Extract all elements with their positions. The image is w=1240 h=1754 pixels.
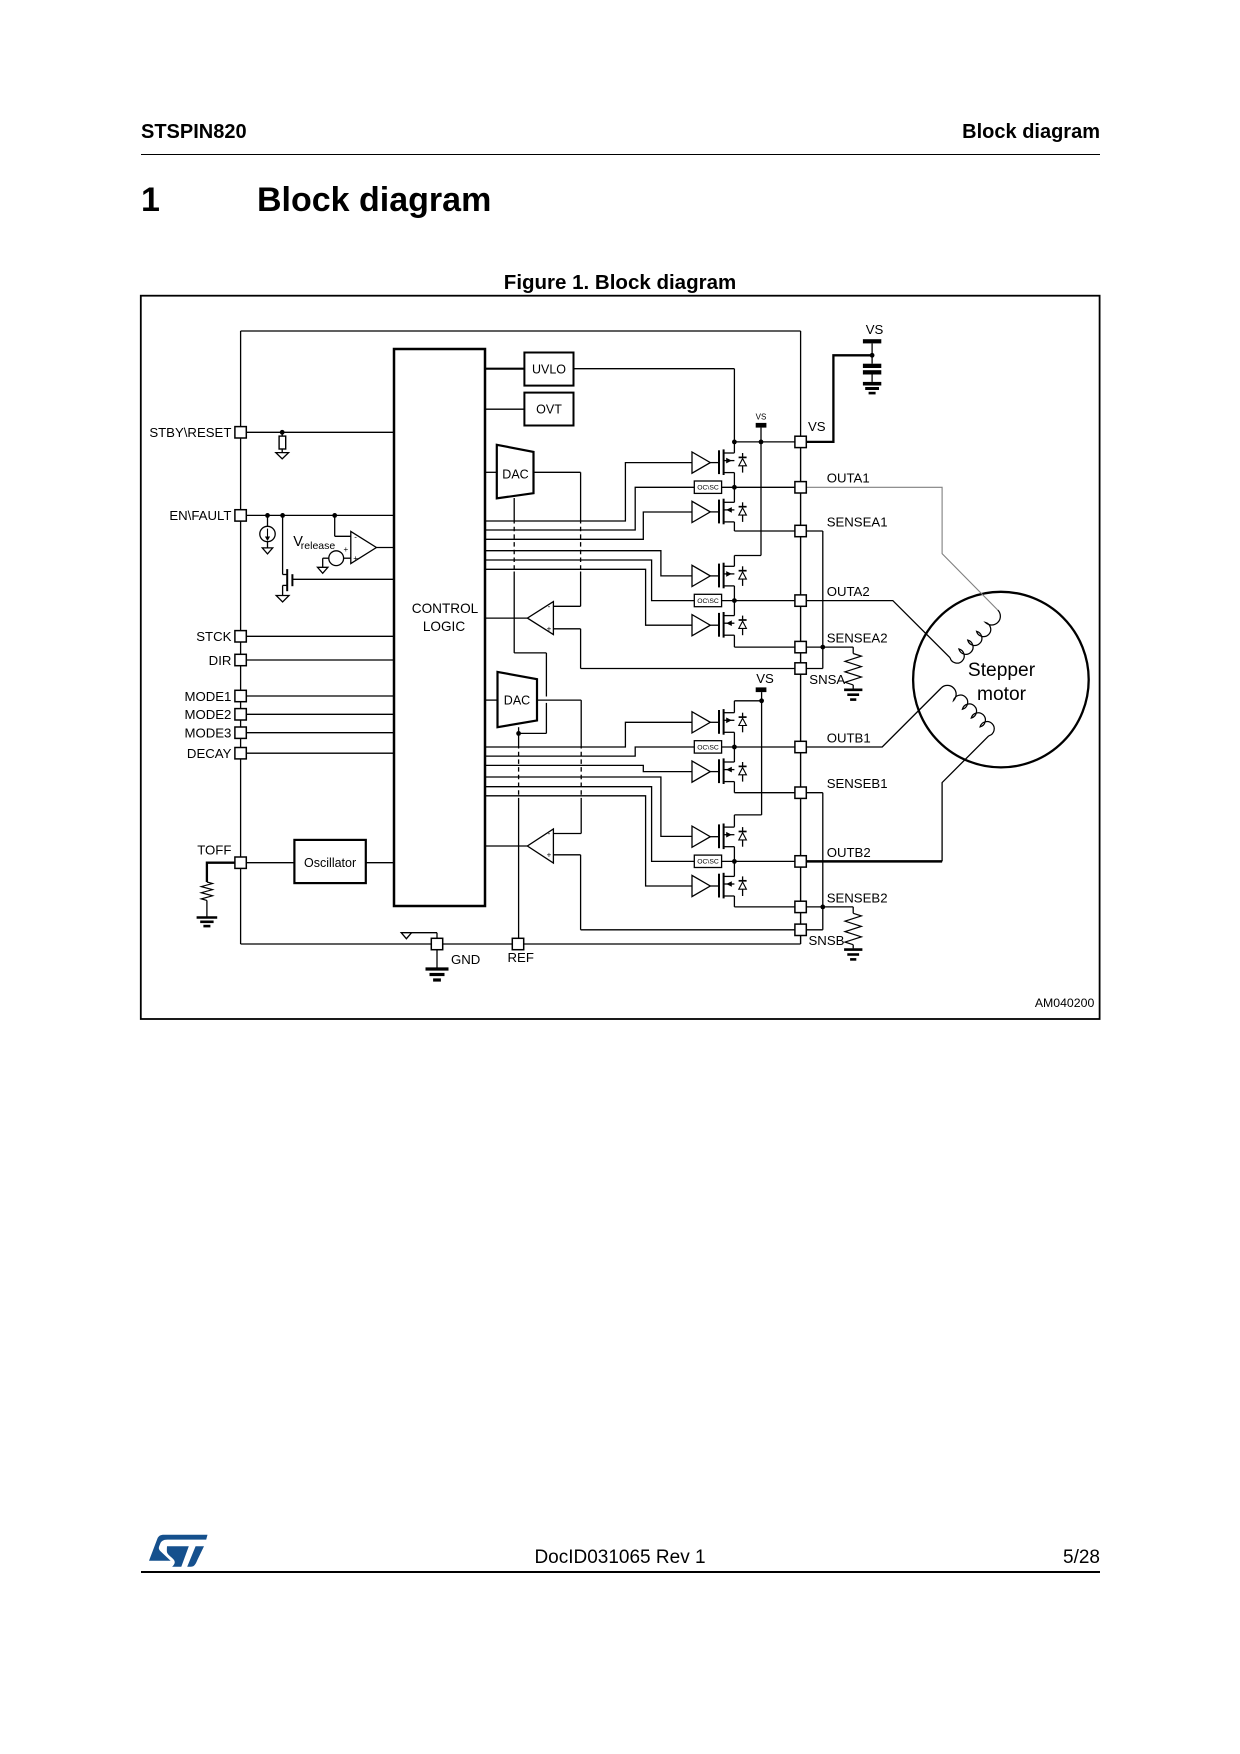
comparator A (current control, bridge A) [527, 602, 553, 635]
svg-text:SENSEA2: SENSEA2 [827, 631, 888, 646]
svg-text:CONTROL: CONTROL [412, 601, 479, 616]
wire VS to bridge B2 drains [761, 701, 763, 815]
OC/SC block OC/SC A1 [694, 481, 721, 493]
wire VS to bridge B1 drains [734, 700, 761, 702]
wire SENSEB1 to SNSB node [806, 792, 823, 794]
wire SENSEB2 to sense resistor [806, 906, 853, 908]
wire Q2L drain to OUTA2 node [733, 601, 735, 616]
wire TOFF to external resistor (thick) [207, 863, 235, 882]
pin SENSEB2 [795, 901, 806, 912]
wire OUTA2 to motor phase A [806, 601, 950, 658]
pin MODE3 [235, 727, 246, 738]
wire comparator A output to control logic [485, 617, 528, 619]
svg-text:OUTA1: OUTA1 [827, 471, 870, 486]
wire SENSEA2 to sense resistor [806, 646, 853, 648]
wire DAC B output to comparator B inverting input [537, 699, 581, 701]
body diode of Q2L [742, 616, 744, 620]
wire Q3L drain to OUTB1 node [733, 747, 735, 762]
node SNSB [820, 905, 825, 910]
wire Q3L source to SENSEB1 [733, 782, 735, 793]
wire REF net: DAC A bottom tap [513, 498, 515, 519]
wire outer loop: bottom GND bus [241, 943, 801, 945]
svg-text:STCK: STCK [196, 629, 231, 644]
wire VS rail (bridge A) [734, 441, 795, 443]
OC/SC block OC/SC B2 [694, 855, 721, 867]
wire MODE2 to control logic [246, 713, 394, 715]
wire DIR to control logic [246, 659, 394, 661]
pin OUTB1 [795, 741, 806, 752]
pin SENSEB1 [795, 787, 806, 798]
comparator U6 (EN release) [351, 531, 377, 563]
wire Q1L drain to OUTA1 node [733, 487, 735, 502]
wire driver DRV8 to gate [710, 885, 719, 887]
footer rule [141, 1571, 1100, 1573]
wire control logic to UVLO [485, 368, 525, 370]
svg-text:+: + [353, 554, 358, 563]
block OVT U3 [524, 393, 573, 426]
wire OUTA1 to motor phase A [806, 487, 998, 610]
gate driver DRV5 (high-side B1) [692, 712, 710, 733]
wire OUTB2 to motor phase B (thick) [806, 860, 942, 863]
pin EN\FAULT [235, 510, 246, 521]
pin DIR [235, 654, 246, 665]
body diode of Q4H [742, 827, 744, 831]
node SNSA [820, 645, 825, 650]
svg-text:release: release [301, 540, 336, 552]
pin MODE2 [235, 709, 246, 720]
svg-text:SNSB: SNSB [809, 933, 845, 948]
pin SENSEA1 [795, 525, 806, 536]
wire driver DRV2 to gate [710, 511, 719, 513]
DAC U4 (bridge A) [497, 445, 534, 499]
wire OC/SC to OUTA1 pin [722, 486, 795, 488]
wire VS to bridge A2 drains [760, 442, 762, 556]
pin SENSEA2 [795, 641, 806, 652]
svg-text:-: - [354, 532, 357, 541]
svg-text:SENSEB2: SENSEB2 [827, 890, 888, 905]
pin VS [795, 436, 806, 447]
pin REF [512, 938, 523, 949]
svg-text:TOFF: TOFF [197, 843, 231, 858]
svg-text:OC\SC: OC\SC [697, 598, 719, 605]
section title [257, 183, 491, 217]
OC/SC block OC/SC A2 [694, 594, 721, 606]
wire OC/SC to OUTB1 pin [722, 746, 795, 748]
svg-text:OUTA2: OUTA2 [827, 584, 870, 599]
svg-text:EN\FAULT: EN\FAULT [169, 508, 231, 523]
inductor phase A winding [949, 610, 1005, 666]
transistor Q3H [718, 710, 720, 734]
wire Q4L source to SENSEB2 [733, 896, 735, 907]
svg-text:VS: VS [808, 419, 826, 434]
wire driver DRV3 to gate [710, 575, 719, 577]
figure caption [0, 273, 1240, 294]
resistor RSNSB [852, 907, 854, 913]
wire SNSA pin [822, 647, 824, 668]
transistor Q4H [718, 824, 720, 848]
voltage source Vrelease [332, 513, 337, 518]
svg-text:DAC: DAC [504, 694, 530, 708]
wire Q2L source to SENSEA2 [733, 635, 735, 647]
node VS bar A junction [759, 440, 764, 445]
svg-text:DAC: DAC [502, 468, 528, 482]
DAC U5 (bridge B) [498, 672, 538, 727]
wire driver DRV5 to gate [710, 721, 719, 723]
wire MODE3 to control logic [246, 732, 394, 734]
transistor Q2L [718, 613, 720, 637]
wire driver DRV7 to gate [710, 836, 719, 838]
wire right pin bus [800, 446, 802, 944]
svg-text:+: + [547, 851, 552, 860]
figure border frame [141, 296, 1100, 1019]
svg-text:+: + [343, 545, 348, 554]
svg-text:OC\SC: OC\SC [697, 744, 719, 751]
wire control logic to DAC A [485, 471, 497, 473]
svg-text:UVLO: UVLO [532, 362, 566, 376]
ground (RSNSB) [844, 948, 862, 951]
body diode of Q1L [742, 502, 744, 506]
pin STBY\RESET [235, 427, 246, 438]
wire SNSB pin [822, 907, 824, 930]
ST Microelectronics logo [149, 1535, 208, 1567]
section number [141, 183, 160, 217]
node VS supply junction [870, 353, 875, 358]
gate driver DRV1 (high-side A1) [692, 452, 710, 473]
node OUTB1 [732, 745, 737, 750]
pin DECAY [235, 748, 246, 759]
wire outer loop: top rail [241, 330, 801, 332]
svg-text:REF: REF [508, 950, 534, 965]
wire STCK to control logic [246, 635, 394, 637]
wire comparator B output to control logic [485, 845, 528, 847]
block UVLO U2 [524, 353, 573, 386]
wire REF net: jog around DAC B [514, 652, 546, 654]
body diode of Q3H [742, 713, 744, 717]
current source I1 (fault pull-up) [265, 513, 270, 518]
wire MODE1 to control logic [246, 695, 394, 697]
transistor Q2H [718, 564, 720, 588]
wire Q2H source to OUTA2 node [733, 586, 735, 601]
node OUTA1 [732, 485, 737, 490]
pin OUTB2 [795, 856, 806, 867]
ground (Q9 source) [276, 596, 289, 603]
footer right: page number [0, 1548, 1100, 1567]
svg-text:VS: VS [756, 671, 774, 686]
wire Q4L drain to OUTB2 node [733, 861, 735, 876]
ground (supply) [863, 382, 881, 386]
pin SNSB [795, 924, 806, 935]
svg-text:SENSEA1: SENSEA1 [827, 514, 888, 529]
ground (current source) [262, 548, 272, 554]
resistor R2 (TOFF) [201, 882, 212, 900]
ground arrow at GND pin [436, 933, 438, 939]
wire DECAY to control logic [246, 752, 394, 754]
svg-text:+: + [547, 625, 552, 634]
wire REF net down to REF pin [518, 733, 520, 744]
body diode of Q1H [742, 453, 744, 457]
svg-text:OUTB1: OUTB1 [827, 730, 871, 745]
wire STBY\RESET to control logic [246, 431, 394, 433]
pin SNSA [795, 663, 806, 674]
wire DAC A output to comparator A inverting input [534, 471, 581, 473]
resistor RSNSA [852, 647, 854, 653]
wire outer loop: left input bus [240, 331, 242, 944]
gate driver DRV3 (high-side A2) [692, 565, 710, 586]
svg-text:MODE2: MODE2 [184, 707, 231, 722]
node VS / UVLO tap [732, 440, 737, 445]
wire driver DRV4 to gate [710, 624, 719, 626]
svg-text:-: - [548, 829, 551, 838]
svg-text:SNSA: SNSA [809, 672, 845, 687]
wire OC/SC to OUTB2 pin [722, 860, 795, 862]
wire driver DRV1 to gate [710, 462, 719, 464]
svg-text:AM040200: AM040200 [1035, 996, 1095, 1010]
transistor Q1H [718, 450, 720, 474]
wire control logic to OVT [485, 408, 525, 410]
transistor Q4L [718, 874, 720, 898]
pin STCK [235, 631, 246, 642]
svg-text:OUTB2: OUTB2 [827, 845, 871, 860]
wire REF net: DAC B bottom tap [518, 727, 520, 733]
svg-text:OVT: OVT [536, 403, 562, 417]
capacitor C1 (bulk) [871, 355, 873, 363]
header left: part number [141, 122, 247, 142]
svg-text:OC\SC: OC\SC [697, 485, 719, 492]
svg-text:motor: motor [977, 684, 1027, 705]
wire control logic to DAC B [485, 699, 498, 701]
wire Q4H source to OUTB2 node [733, 847, 735, 862]
ground (TOFF resistor) [197, 916, 218, 919]
svg-text:SENSEB1: SENSEB1 [827, 776, 888, 791]
svg-text:-: - [548, 602, 551, 611]
wire comparator A non-inverting input to SNSA [553, 628, 580, 630]
ground (RSNSA) [844, 688, 862, 691]
wire SENSEA1 to SNSA node [806, 530, 823, 532]
wires gate-control bus, bridge B [485, 722, 692, 747]
node OUTB2 [732, 859, 737, 864]
svg-text:DIR: DIR [209, 653, 232, 668]
comparator B (current control, bridge B) [527, 829, 553, 863]
wire Q1L source to SENSEA1 [733, 522, 735, 531]
wire VS rail down to Q1H drain [733, 442, 735, 453]
node OUTA2 [732, 598, 737, 603]
header right: chapter name [0, 122, 1100, 142]
block Oscillator [294, 840, 365, 883]
stepper motor M [913, 592, 1089, 768]
pin TOFF [235, 857, 246, 868]
node VS bar B junction [759, 698, 764, 703]
battery/supply terminal bar [863, 339, 881, 343]
resistor R1 (STBY pulldown) [280, 430, 285, 435]
wire outer loop: right drop to VS pin [800, 331, 802, 437]
pin OUTA1 [795, 482, 806, 493]
inductor phase B winding [941, 680, 997, 736]
gate driver DRV6 (low-side B1) [692, 761, 710, 782]
block CONTROL LOGIC [394, 349, 485, 906]
body diode of Q2H [742, 566, 744, 570]
transistor Q3L [718, 759, 720, 783]
svg-text:GND: GND [451, 952, 480, 967]
svg-text:MODE3: MODE3 [184, 726, 231, 741]
OC/SC block OC/SC B1 [694, 741, 721, 753]
ground (Vrelease) [318, 567, 328, 573]
svg-text:MODE1: MODE1 [184, 689, 231, 704]
wire comparator B inverting input [553, 833, 581, 835]
wire TOFF pin to oscillator [246, 862, 294, 864]
gate driver DRV7 (high-side B2) [692, 826, 710, 847]
transistor Q1L [718, 500, 720, 524]
gate driver DRV8 (low-side B2) [692, 875, 710, 896]
svg-text:DECAY: DECAY [187, 746, 232, 761]
wire UVLO to VS rail [574, 368, 735, 370]
wire comparator A inverting input [553, 605, 580, 607]
body diode of Q4L [742, 876, 744, 880]
wire comparator B non-inverting input to SNSB [553, 854, 580, 856]
svg-text:VS: VS [756, 413, 767, 422]
pin MODE1 [235, 690, 246, 701]
wire Q9 gate to control logic [292, 578, 394, 580]
transistor Q9 (EN pulldown) [280, 513, 285, 518]
wires gate-control bus, bridge A [485, 463, 692, 521]
svg-text:Stepper: Stepper [968, 660, 1036, 681]
wire driver DRV6 to gate [710, 771, 719, 773]
gate driver DRV4 (low-side A2) [692, 615, 710, 636]
pin OUTA2 [795, 595, 806, 606]
node REF junction [516, 731, 521, 736]
svg-text:VS: VS [866, 322, 884, 337]
body diode of Q3L [742, 762, 744, 766]
footer center: document id [0, 1548, 1240, 1567]
wire Q3H source to OUTB1 node [733, 732, 735, 747]
svg-text:LOGIC: LOGIC [423, 619, 465, 634]
svg-text:STBY\RESET: STBY\RESET [149, 425, 231, 440]
svg-text:OC\SC: OC\SC [697, 859, 719, 866]
wire comparator U6 output to control logic [376, 547, 394, 549]
svg-text:Oscillator: Oscillator [304, 856, 356, 870]
wire oscillator to control logic [366, 862, 394, 864]
wire OUTB1 to motor phase B [806, 688, 941, 747]
wire OC/SC to OUTA2 pin [722, 600, 795, 602]
pin GND [431, 938, 442, 949]
gate driver DRV2 (low-side A1) [692, 501, 710, 522]
header rule [141, 154, 1100, 155]
ground (STBY pulldown) [276, 453, 289, 459]
ground (GND pin) [436, 950, 438, 968]
wire VS supply to VS pin (thick) [806, 355, 872, 442]
wire Q1H source to OUTA1 node [733, 473, 735, 488]
wire EN\FAULT to control logic [246, 514, 394, 516]
